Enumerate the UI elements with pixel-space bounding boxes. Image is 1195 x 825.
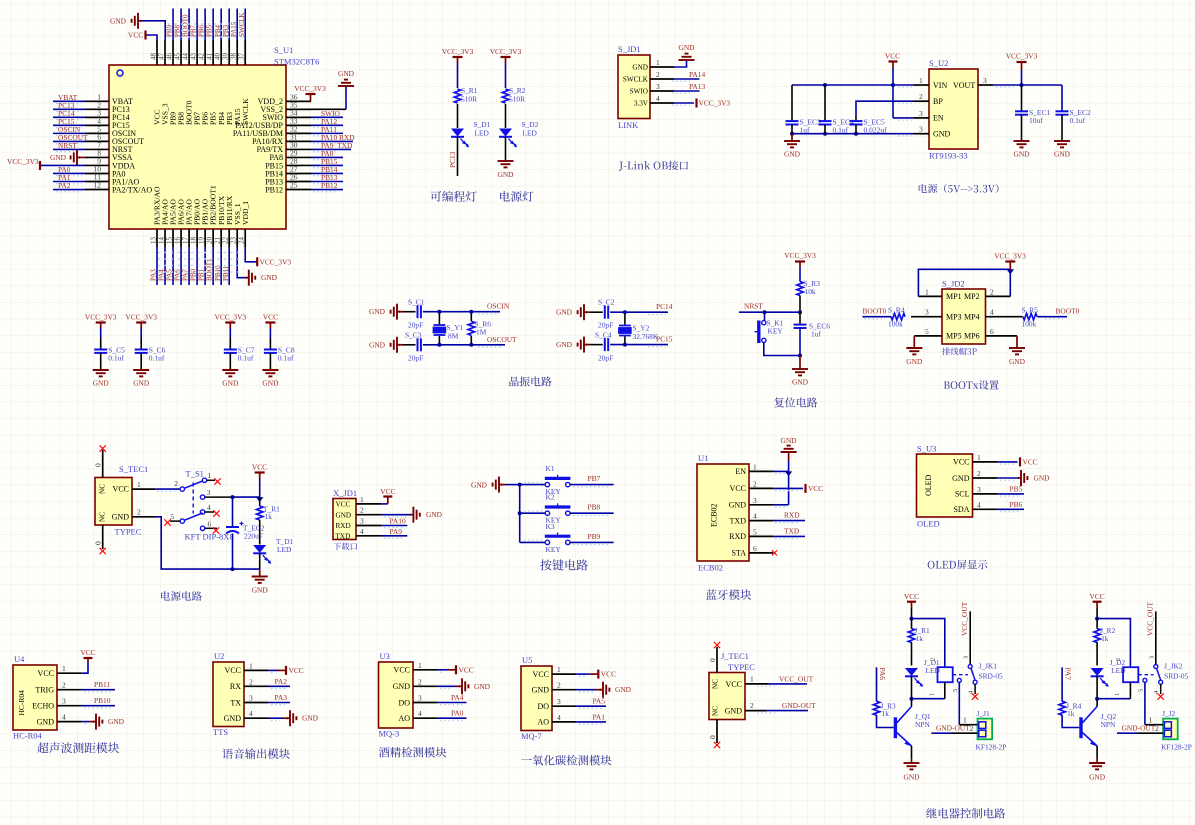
- svg-text:PA14: PA14: [689, 70, 705, 79]
- mcu pin 33 PA12/USB/DP: [286, 124, 311, 126]
- svg-text:GND: GND: [338, 69, 355, 78]
- ground: [576, 689, 596, 691]
- wire net SWCLK: [244, 9, 246, 41]
- svg-text:3.3V: 3.3V: [634, 100, 649, 108]
- svg-text:PA5: PA5: [593, 697, 606, 706]
- svg-text:21: 21: [213, 237, 221, 245]
- svg-text:S_U1: S_U1: [274, 45, 293, 55]
- module pin 1 VCC: [973, 461, 998, 463]
- capacitor S_C8 0.1uf: [269, 328, 271, 338]
- connector pin 4 TXD: [356, 535, 381, 537]
- svg-text:STA: STA: [732, 549, 747, 558]
- wire net PB11: [81, 689, 115, 691]
- wire net PB7: [196, 9, 198, 41]
- svg-text:VCC: VCC: [808, 484, 823, 493]
- svg-text:23: 23: [230, 237, 238, 245]
- svg-text:PA2: PA2: [58, 181, 71, 190]
- module U5 body: [521, 666, 552, 731]
- svg-text:5: 5: [952, 689, 959, 692]
- connector pin 2 GND: [356, 514, 381, 516]
- svg-text:RXD: RXD: [729, 532, 746, 541]
- resistor S_R5 100k: [1023, 314, 1037, 320]
- crystal S_Y1 8M: [438, 312, 440, 324]
- svg-text:GND: GND: [780, 436, 797, 445]
- module U3 body: [379, 662, 414, 728]
- power VCC_3V3 at S_JD1 pin 4: [674, 102, 694, 104]
- wire GND rail: [792, 133, 914, 135]
- header pin 2: [986, 295, 1011, 297]
- svg-text:32.768K: 32.768K: [633, 332, 659, 341]
- svg-text:2: 2: [360, 506, 364, 515]
- svg-text:1: 1: [656, 58, 660, 67]
- connector shell pin bottom: [102, 525, 104, 549]
- mcu pin 6 OSCOUT: [85, 140, 109, 142]
- svg-text:GND: GND: [369, 307, 386, 316]
- wire button to ground rail: [764, 343, 800, 356]
- svg-text:41: 41: [205, 53, 213, 61]
- ground at pin 6: [1016, 336, 1018, 348]
- svg-text:4: 4: [977, 500, 981, 509]
- svg-text:VCC: VCC: [336, 501, 351, 509]
- wire coil feed: [912, 619, 945, 668]
- wire emitter to ground: [1096, 746, 1098, 759]
- svg-text:S_C4: S_C4: [595, 331, 612, 340]
- mcu pin 8 VSSA: [85, 156, 109, 158]
- svg-text:100k: 100k: [1022, 320, 1037, 329]
- svg-text:4: 4: [656, 94, 660, 103]
- wire net PB9: [172, 9, 174, 41]
- module U2 pin 3 TX: [244, 702, 268, 704]
- svg-text:DO: DO: [398, 698, 410, 707]
- connector shell pin top: [102, 450, 104, 478]
- compile marks below mcu: [158, 252, 240, 254]
- wire: [457, 63, 459, 88]
- svg-text:OLED: OLED: [924, 474, 933, 496]
- connector J_J2 body: [1163, 719, 1178, 740]
- svg-text:VCC_OUT: VCC_OUT: [779, 675, 814, 684]
- svg-text:GND: GND: [474, 682, 491, 691]
- svg-text:SWCLK: SWCLK: [623, 76, 649, 84]
- ground: [498, 160, 514, 162]
- svg-text:PB12: PB12: [265, 185, 283, 194]
- wire net OSCIN: [53, 132, 85, 134]
- header pin 4: [986, 316, 1023, 318]
- svg-text:T_S1: T_S1: [186, 469, 204, 479]
- svg-text:4: 4: [249, 709, 253, 718]
- svg-text:VCC: VCC: [1089, 592, 1104, 601]
- svg-text:TTS: TTS: [213, 727, 228, 737]
- svg-text:MP2: MP2: [964, 292, 980, 301]
- led J_D1: [905, 668, 918, 676]
- svg-text:PB7: PB7: [190, 24, 198, 37]
- wire net PA0: [437, 717, 467, 719]
- power VCC_3V3 at pin 24 VDD_1: [245, 247, 257, 262]
- ground: [791, 134, 793, 141]
- svg-text:GND: GND: [37, 717, 55, 726]
- wire net PA6: [180, 247, 182, 285]
- header pin 1: [918, 295, 942, 297]
- wire net BOOT1: [212, 247, 214, 285]
- svg-text:0.1uf: 0.1uf: [278, 354, 294, 363]
- svg-text:0: 0: [94, 463, 103, 467]
- svg-text:17: 17: [181, 237, 189, 245]
- svg-text:VCC_3V3: VCC_3V3: [294, 84, 326, 93]
- svg-text:0: 0: [94, 541, 103, 545]
- regulator pin 4: [914, 133, 929, 135]
- mcu pin 35 VSS_2: [286, 108, 311, 110]
- svg-text:2: 2: [62, 681, 66, 690]
- wire OSCIN: [423, 311, 500, 313]
- svg-text:X_JD1: X_JD1: [333, 488, 357, 498]
- svg-text:S_U2: S_U2: [929, 58, 948, 68]
- resistor J_R1 1k: [911, 619, 913, 629]
- module U5 pin 2 GND: [552, 689, 576, 691]
- svg-text:5: 5: [753, 527, 757, 536]
- junction: [623, 310, 627, 314]
- svg-text:0: 0: [708, 735, 717, 739]
- svg-text:VCC: VCC: [289, 666, 304, 675]
- capacitor S_C4 20pF: [590, 344, 603, 346]
- svg-text:VCC: VCC: [904, 592, 919, 601]
- wire net PA10_RXD: [311, 140, 353, 142]
- wire net PC13: [457, 137, 459, 176]
- junction: [1020, 83, 1024, 87]
- svg-text:40: 40: [213, 53, 221, 61]
- svg-text:0.1uf: 0.1uf: [1070, 116, 1086, 125]
- svg-text:PA9: PA9: [390, 527, 403, 536]
- mcu pin 42 PB6: [204, 40, 206, 65]
- ground: [437, 685, 455, 687]
- svg-text:100k: 100k: [888, 320, 903, 329]
- svg-text:RX: RX: [230, 682, 241, 691]
- svg-text:OLED: OLED: [917, 519, 940, 529]
- mcu pin 15 PA5/AO: [172, 229, 174, 247]
- svg-text:2: 2: [919, 92, 923, 101]
- relay pin 4 no connect: [973, 680, 977, 684]
- capacitor S_C2 20pF: [590, 311, 603, 313]
- svg-text:TX: TX: [230, 698, 241, 707]
- led S_D1: [451, 129, 464, 137]
- mcu pin 4 PC15: [85, 124, 109, 126]
- transistor J_Q2 NPN: [1079, 717, 1082, 738]
- wire net PA13: [674, 90, 700, 92]
- svg-text:2: 2: [249, 677, 253, 686]
- power VCC_3V3 at pin 36: [286, 100, 311, 102]
- svg-text:GND: GND: [1013, 150, 1030, 159]
- svg-text:GND: GND: [133, 379, 150, 388]
- header pin 3: [911, 316, 942, 318]
- connector pin 4 3.3V: [650, 102, 674, 104]
- module pin 6 STA: [749, 552, 773, 554]
- power VCC_3V3 at pin 9 VDDA: [40, 164, 85, 166]
- svg-text:ECHO: ECHO: [32, 702, 54, 711]
- module pin 3 GND: [749, 504, 773, 506]
- svg-text:GND: GND: [261, 273, 278, 282]
- module U5 pin 1 VCC: [552, 673, 576, 675]
- relay J_JK1 coil: [938, 667, 953, 682]
- svg-text:6: 6: [753, 544, 757, 553]
- power VCC OLED: [997, 461, 1018, 463]
- capacitor S_C3 20pF: [403, 344, 416, 346]
- svg-text:4: 4: [62, 713, 66, 722]
- svg-text:S_C3: S_C3: [405, 331, 422, 340]
- svg-text:1: 1: [753, 462, 757, 471]
- svg-text:PC15: PC15: [656, 335, 673, 344]
- mcu pin 21 PB10/TX: [220, 229, 222, 247]
- svg-text:4: 4: [990, 308, 994, 317]
- svg-text:BP: BP: [933, 97, 943, 106]
- svg-text:SRD-05: SRD-05: [1164, 672, 1189, 681]
- svg-text:4: 4: [360, 527, 364, 536]
- module U3 pin 3 DO: [413, 702, 437, 704]
- svg-text:47: 47: [157, 53, 165, 61]
- wire net PB8: [180, 9, 182, 41]
- mcu pin 39 PB3: [228, 40, 230, 65]
- svg-text:3: 3: [360, 517, 364, 526]
- wire net PC15: [53, 124, 85, 126]
- capacitor S_C1 20pF: [403, 311, 416, 313]
- connector J_J2 pin 2 GND-OUT: [1138, 732, 1164, 734]
- relay linkage dashed: [1138, 674, 1153, 676]
- svg-text:19: 19: [197, 237, 205, 245]
- wire: [505, 104, 507, 128]
- module S_U3 body: [917, 454, 973, 517]
- switch linkage dashed: [192, 483, 194, 514]
- ground: [1089, 762, 1105, 764]
- title power LED: [500, 191, 533, 202]
- svg-text:VCC_3V3: VCC_3V3: [699, 99, 731, 108]
- svg-text:ECB02: ECB02: [698, 563, 723, 573]
- svg-text:GND: GND: [933, 130, 951, 139]
- svg-text:KEY: KEY: [768, 327, 784, 336]
- svg-text:GND: GND: [725, 707, 743, 716]
- wire PC15: [610, 344, 668, 346]
- module U4 pin 3 ECHO: [57, 705, 81, 707]
- ground at pin 5: [913, 336, 915, 348]
- wire net PB4: [220, 9, 222, 41]
- resistor S_R1 510R: [454, 89, 460, 103]
- wire net PA12: [311, 124, 343, 126]
- title crystal circuit: [509, 376, 551, 386]
- wire net PC13: [53, 108, 85, 110]
- switch pin 3: [200, 495, 204, 499]
- wire net BOOT0 right: [1037, 316, 1067, 318]
- ground: [93, 369, 109, 371]
- svg-text:1k: 1k: [265, 512, 273, 521]
- connector pin 2 SWCLK: [650, 78, 674, 80]
- svg-text:GND: GND: [262, 379, 279, 388]
- wire net BOOT0: [188, 9, 190, 41]
- resistor J_R2 1k: [1096, 619, 1098, 629]
- connector X_JD1 body: [333, 499, 356, 540]
- svg-text:510R: 510R: [509, 95, 525, 104]
- module pin 1 EN: [749, 470, 773, 472]
- connector J_TEC1 body: [709, 673, 745, 720]
- mcu U1 body: [109, 65, 286, 229]
- svg-text:TYPEC: TYPEC: [728, 662, 755, 672]
- svg-text:PA6: PA6: [174, 269, 182, 281]
- mcu pin 47 VSS_3: [164, 40, 166, 65]
- svg-text:1k: 1k: [882, 709, 890, 718]
- svg-text:20pF: 20pF: [598, 354, 613, 363]
- wire net PA4: [164, 247, 166, 285]
- wire base: [1062, 715, 1079, 728]
- wire net VBAT: [53, 100, 85, 102]
- svg-text:0: 0: [708, 658, 717, 662]
- mcu pin 31 PA10/RX: [286, 140, 311, 142]
- svg-text:6: 6: [208, 520, 212, 529]
- mcu pin 19 PB1/AO: [204, 229, 206, 247]
- svg-text:VCC: VCC: [459, 665, 474, 674]
- junction: [823, 83, 827, 87]
- wire ground rail: [155, 517, 260, 569]
- mcu pin 14 PA4/AO: [164, 229, 166, 247]
- svg-text:PA3: PA3: [275, 693, 288, 702]
- svg-text:VOUT: VOUT: [953, 81, 975, 90]
- svg-text:VCC_OUT: VCC_OUT: [1145, 601, 1154, 636]
- svg-text:0.1uf: 0.1uf: [238, 354, 254, 363]
- svg-text:1: 1: [750, 675, 754, 684]
- connector pin 2 GND-OUT: [745, 710, 767, 712]
- mcu pin 17 PA7/AO: [188, 229, 190, 247]
- svg-text:TXD: TXD: [784, 526, 800, 535]
- wire net PB6: [997, 508, 1024, 510]
- svg-text:VCC: VCC: [1023, 457, 1038, 466]
- svg-text:SDA: SDA: [953, 505, 969, 514]
- wire net NRST: [739, 311, 800, 313]
- svg-text:10k: 10k: [805, 287, 816, 296]
- wire EN and GND to ground: [788, 461, 790, 505]
- wire net PA2: [53, 189, 85, 191]
- svg-text:PA6: PA6: [878, 668, 887, 681]
- svg-text:16: 16: [173, 237, 181, 245]
- svg-text:NPN: NPN: [915, 720, 930, 729]
- mcu pin 36 VDD_2: [286, 100, 311, 102]
- relay pin 5: [957, 678, 961, 682]
- regulator pin 1: [914, 84, 929, 86]
- svg-text:K1: K1: [546, 464, 555, 473]
- ground at pin 23 VSS_1: [237, 247, 249, 278]
- svg-text:VCC_3V3: VCC_3V3: [442, 47, 474, 56]
- svg-text:VCC_3V3: VCC_3V3: [125, 313, 157, 322]
- mcu pin 27 PB14: [286, 172, 311, 174]
- wire to switch: [155, 488, 180, 490]
- svg-text:GND: GND: [615, 685, 632, 694]
- svg-text:2: 2: [557, 681, 561, 690]
- svg-text:SCL: SCL: [955, 490, 970, 499]
- wire VOUT rail: [993, 84, 1062, 86]
- svg-text:1: 1: [62, 664, 66, 673]
- svg-text:AO: AO: [398, 714, 410, 723]
- svg-text:BOOT0: BOOT0: [1056, 307, 1080, 316]
- wire net PA7: [188, 247, 190, 285]
- svg-text:3: 3: [919, 109, 923, 118]
- connector shell pin bottom: [716, 720, 718, 744]
- svg-text:4: 4: [753, 512, 757, 521]
- svg-text:RT9193-33: RT9193-33: [929, 151, 968, 161]
- wire net PA14: [674, 78, 700, 80]
- wire PC14: [610, 311, 668, 313]
- svg-text:VCC_3V3: VCC_3V3: [85, 313, 117, 322]
- wire led to collector junction: [1096, 676, 1098, 698]
- wire to button K3: [520, 541, 546, 543]
- mcu pin 45 PB8: [180, 40, 182, 65]
- no connect STA: [772, 550, 777, 555]
- relay switch arm: [1157, 668, 1161, 680]
- svg-text:2: 2: [990, 287, 994, 296]
- title CO module: [521, 755, 611, 766]
- svg-text:J_TEC1: J_TEC1: [721, 651, 749, 661]
- svg-text:5: 5: [1137, 689, 1144, 692]
- module U1 body: [697, 464, 749, 561]
- svg-text:GND: GND: [792, 378, 809, 387]
- svg-text:NC: NC: [99, 484, 107, 494]
- wire net PB6: [204, 9, 206, 41]
- ground: [1014, 140, 1030, 142]
- header pin 6: [986, 335, 1018, 337]
- svg-text:VCC: VCC: [726, 680, 742, 689]
- svg-text:PA4: PA4: [158, 269, 166, 281]
- mcu pin 11 PA1/AO: [85, 181, 109, 183]
- svg-text:VCC: VCC: [225, 666, 241, 675]
- capacitor T_EC2 220uF: [232, 497, 234, 526]
- svg-text:46: 46: [165, 53, 173, 61]
- svg-text:S_U3: S_U3: [917, 444, 936, 454]
- svg-text:1k: 1k: [1101, 634, 1109, 643]
- wire: [505, 63, 507, 88]
- svg-text:VCC_3V3: VCC_3V3: [490, 47, 522, 56]
- wire net PA8: [311, 156, 343, 158]
- svg-text:K3: K3: [546, 522, 555, 531]
- svg-text:8M: 8M: [448, 332, 459, 341]
- svg-text:MP3: MP3: [946, 313, 962, 322]
- svg-text:VCC: VCC: [601, 670, 616, 679]
- svg-text:GND: GND: [729, 501, 747, 510]
- svg-text:TYPEC: TYPEC: [115, 527, 142, 537]
- wire net PA5: [172, 247, 174, 285]
- header pin 5: [914, 335, 942, 337]
- mcu pin 20 PB2/BOOT1: [212, 229, 214, 247]
- svg-text:37: 37: [238, 53, 246, 61]
- resistor S_R3 10k: [799, 267, 801, 282]
- svg-text:39: 39: [221, 53, 229, 61]
- mcu pin 26 PB13: [286, 181, 311, 183]
- wire net PA5: [576, 705, 606, 707]
- svg-text:GND: GND: [784, 150, 801, 159]
- module U2 pin 4 GND: [244, 717, 268, 719]
- svg-text:2: 2: [977, 469, 981, 478]
- module pin 4 SDA: [973, 508, 998, 510]
- svg-text:3: 3: [656, 82, 660, 91]
- svg-text:2: 2: [750, 701, 754, 710]
- junction: [231, 495, 235, 499]
- svg-text:3: 3: [919, 125, 923, 134]
- svg-text:BOOT1: BOOT1: [206, 258, 214, 281]
- mcu pin 46 PB9: [172, 40, 174, 65]
- svg-text:1: 1: [557, 665, 561, 674]
- svg-text:3: 3: [983, 76, 987, 85]
- svg-text:1uf: 1uf: [800, 126, 811, 135]
- svg-text:PA5: PA5: [166, 269, 174, 281]
- svg-text:DO: DO: [537, 702, 549, 711]
- wire to button K2: [520, 512, 546, 514]
- svg-text:LED: LED: [277, 545, 292, 554]
- module pin 3 SCL: [973, 493, 998, 495]
- connector S_JD1 body: [618, 55, 650, 119]
- svg-text:GND: GND: [252, 586, 269, 595]
- title bluetooth module: [706, 589, 751, 600]
- svg-text:GND: GND: [50, 153, 67, 162]
